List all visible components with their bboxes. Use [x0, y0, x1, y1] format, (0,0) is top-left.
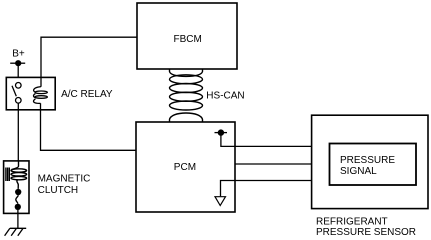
svg-text:PCM: PCM — [174, 162, 196, 173]
svg-text:PRESSURE SENSOR: PRESSURE SENSOR — [316, 227, 416, 238]
svg-text:A/C RELAY: A/C RELAY — [61, 89, 113, 100]
svg-text:B+: B+ — [12, 49, 25, 60]
svg-text:MAGNETIC: MAGNETIC — [38, 174, 91, 185]
svg-text:SIGNAL: SIGNAL — [340, 166, 377, 177]
svg-text:HS-CAN: HS-CAN — [206, 91, 244, 102]
svg-text:REFRIGERANT: REFRIGERANT — [316, 216, 388, 227]
svg-text:FBCM: FBCM — [174, 34, 202, 45]
svg-text:PRESSURE: PRESSURE — [340, 155, 395, 166]
svg-text:CLUTCH: CLUTCH — [38, 185, 79, 196]
